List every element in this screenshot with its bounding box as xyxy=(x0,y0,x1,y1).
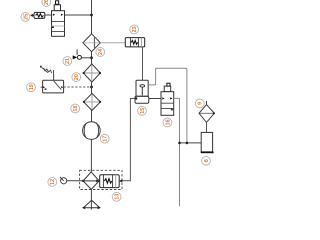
label 24 xyxy=(96,48,105,57)
label 8 xyxy=(202,156,211,165)
filter 20 internal cross lines xyxy=(84,65,100,82)
wire main vertical segment 2 xyxy=(91,52,93,64)
wire gauge to drain filter xyxy=(67,180,83,182)
svg-text:19: 19 xyxy=(29,84,35,90)
junction main/bleed21 xyxy=(90,56,93,59)
svg-text:13: 13 xyxy=(115,194,121,200)
solenoid purge valve 26 pilot square xyxy=(56,1,59,4)
label 12 xyxy=(48,178,57,187)
wire main vertical segment 4 xyxy=(91,111,93,123)
compressor 8 body xyxy=(201,132,212,152)
wire valve23 down to autodrain15 xyxy=(142,47,144,80)
solenoid purge valve 26 actuator box xyxy=(54,5,60,11)
autodrain 15 bowl xyxy=(135,96,149,103)
valve 26 seat mark xyxy=(52,26,54,28)
svg-text:15: 15 xyxy=(140,108,146,114)
valve 26 divider lines xyxy=(52,21,65,31)
label 25 xyxy=(21,13,30,22)
label 15 xyxy=(138,106,147,115)
svg-text:16: 16 xyxy=(165,119,171,125)
bleed orifice 21 body xyxy=(73,55,78,59)
intake filter 9 internal line xyxy=(200,112,214,114)
label 20 xyxy=(72,73,81,82)
label 21 xyxy=(63,57,72,66)
bleed orifice 21 vent stub xyxy=(76,49,78,55)
intake filter 9 diamond xyxy=(199,105,214,123)
autodrain 15 float knob xyxy=(140,85,145,87)
label 13 xyxy=(112,192,121,201)
autodrain 15 float stem xyxy=(141,87,143,95)
svg-text:17: 17 xyxy=(103,136,109,142)
svg-text:24: 24 xyxy=(98,49,104,55)
label 26 xyxy=(42,0,51,6)
compressor 8 base xyxy=(201,151,213,153)
relief valve 23 zigzag xyxy=(131,41,138,45)
valve 16 divider lines xyxy=(161,103,174,108)
wire valve16 right to down line xyxy=(174,98,180,206)
wire drain filter down xyxy=(90,189,92,209)
filter 24 diamond xyxy=(83,34,100,52)
regulator 19 left stub xyxy=(41,86,43,88)
svg-text:23: 23 xyxy=(132,26,138,32)
wire main vertical supply segment top xyxy=(91,0,93,34)
filter 20 diamond xyxy=(83,64,100,82)
regulator 19 body xyxy=(43,80,64,93)
drain valve 13 body xyxy=(100,175,120,188)
svg-text:18: 18 xyxy=(73,106,79,112)
relief valve 23 dividers xyxy=(130,38,138,47)
filter 20 vertex dots xyxy=(83,72,85,74)
exhaust triangle xyxy=(83,200,100,208)
autodrain 15 main box xyxy=(136,80,148,96)
label 9 xyxy=(195,99,204,108)
svg-text:26: 26 xyxy=(44,0,50,5)
svg-text:9: 9 xyxy=(198,102,204,105)
drain filter 13 diamond xyxy=(83,172,99,190)
drain valve 13 dividers xyxy=(103,175,112,188)
muffler 25 exhaust arrow xyxy=(32,14,34,16)
valve 16 port arrows xyxy=(162,97,165,99)
wire drain valve right port xyxy=(119,180,121,182)
junction main/valve26 xyxy=(90,14,93,17)
muffler 25 zigzag element xyxy=(36,14,44,17)
bleed orifice 21 circle xyxy=(77,55,81,59)
membrane dryer 17 internal arcs xyxy=(84,123,98,137)
wire long top route to compressor line xyxy=(156,68,187,143)
junction main/pilot dashed xyxy=(90,86,93,89)
wire main vertical segment 5 xyxy=(90,139,92,172)
label 23 xyxy=(130,25,139,34)
wire bowl right to valve16 xyxy=(149,98,161,100)
label 16 xyxy=(163,118,172,127)
wire muffler25 to valve26 xyxy=(45,14,52,16)
muffler 25 body xyxy=(34,12,45,18)
regulator 19 internal diagonal xyxy=(54,81,62,90)
filter 18 diamond xyxy=(84,93,101,110)
svg-text:12: 12 xyxy=(50,179,56,185)
svg-text:21: 21 xyxy=(65,58,71,64)
regulator 19 internal dot xyxy=(45,88,47,90)
regulator 19 stem xyxy=(53,70,55,80)
filter 24 internal vertical chord xyxy=(93,37,95,48)
junction compressor line / valve16 line xyxy=(178,142,181,145)
wire bleed21 to main xyxy=(81,57,91,59)
filter 18 vertex dots xyxy=(83,101,85,103)
regulator 19 adjust arrow xyxy=(41,67,48,73)
wire bowl left to drain assembly xyxy=(121,99,135,181)
solenoid purge valve 26 body xyxy=(52,11,65,37)
intake filter 9 stub xyxy=(206,101,208,105)
filter 24 internal horizontal line xyxy=(84,42,100,44)
regulator 19 spring xyxy=(44,68,52,73)
regulator 19 right port arrow xyxy=(61,86,63,88)
relief valve 23 body xyxy=(125,38,144,47)
svg-text:20: 20 xyxy=(74,74,80,80)
label 18 xyxy=(71,104,80,113)
membrane dryer 17 circle xyxy=(83,122,101,140)
valve 16 seat mark xyxy=(171,109,173,111)
solenoid drain valve 16 actuator box xyxy=(164,86,171,92)
drain valve 13 zigzag xyxy=(104,179,111,184)
solenoid drain valve 16 body xyxy=(161,92,174,116)
valve 26 port arrows xyxy=(53,14,56,16)
label 17 xyxy=(100,134,109,143)
svg-text:8: 8 xyxy=(204,159,210,162)
pipe filter24 to relief valve 23 xyxy=(100,42,125,44)
wire main vertical segment 3 xyxy=(91,82,93,93)
wire filter9 to compressor xyxy=(206,122,208,132)
solenoid drain valve 16 pilot square xyxy=(167,83,170,86)
pilot dashed line regulator to main xyxy=(64,86,92,88)
pressure gauge 12 xyxy=(61,178,67,184)
drain filter assembly 13 dashed enclosure xyxy=(80,170,122,189)
drain filter 13 flow arrow xyxy=(83,180,97,182)
wire autodrain15 upper right xyxy=(148,68,155,85)
label 19 xyxy=(27,83,36,92)
wire compressor output line xyxy=(180,142,202,144)
junction bowl left xyxy=(135,97,137,99)
filter 18 internal cross lines xyxy=(84,94,100,110)
junction compressor line / top route xyxy=(186,142,189,145)
svg-text:25: 25 xyxy=(23,14,29,20)
wire valve26 to main line xyxy=(65,14,92,16)
